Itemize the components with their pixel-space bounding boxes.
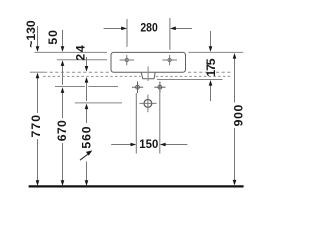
- dim 280: extension line from right faucet hole: [169, 18, 171, 50]
- arrowheads (black): [36, 27, 237, 186]
- arrow 24 up (to dashed line 2): [85, 77, 89, 83]
- svg-text:150: 150: [139, 138, 158, 151]
- dim 670 line: [62, 93, 64, 118]
- svg-text:900: 900: [232, 104, 246, 126]
- dim 150: right arrow line: [165, 144, 188, 146]
- rim extension line right: [189, 51, 244, 53]
- drain centerline: [147, 66, 149, 81]
- dim 280: extension line from left faucet hole: [126, 19, 128, 47]
- arrow 670 down (floor): [61, 180, 65, 186]
- dim 900 line: [234, 59, 236, 103]
- svg-text:560: 560: [80, 126, 94, 148]
- drain-center level extension line: [75, 102, 122, 104]
- trapezoid-bottom extension line right: [157, 79, 223, 81]
- rim extension line left: [35, 51, 108, 53]
- faucet hole cross right: [162, 55, 177, 65]
- svg-text:50: 50: [46, 30, 60, 45]
- svg-text:670: 670: [55, 120, 69, 141]
- arrow 900 down (floor): [233, 180, 237, 186]
- wall dashed line 2: [43, 75, 141, 77]
- arrow 560 diagonal (points NE to drain): [86, 150, 92, 155]
- arrow 150 left (points right): [131, 143, 137, 147]
- dim 280: right arrow: [175, 28, 192, 30]
- arrow 770 down (floor): [36, 180, 40, 186]
- svg-text:24: 24: [74, 45, 88, 61]
- arrow 150 right (points left): [160, 143, 166, 147]
- dim 175 lower pointer: [210, 85, 212, 101]
- arrow 280 left (points right): [121, 27, 127, 31]
- svg-text:~130: ~130: [24, 20, 38, 48]
- faucet hole cross left: [120, 55, 135, 65]
- dim ~130 pointer line: [37, 26, 39, 47]
- dim 175 upper pointer: [210, 31, 212, 47]
- dim 560 upper tail below drain-center line: [86, 109, 88, 124]
- fixing hole right (circle with cross): [154, 82, 165, 94]
- arrow 670 up (to fixing line): [61, 87, 65, 93]
- dim 150: extension lines from fixing holes: [135, 93, 137, 154]
- fixing hole left (circle with cross): [132, 82, 143, 94]
- floor line: [29, 185, 244, 187]
- wall dashed line 1 (basin bottom level): [30, 71, 44, 73]
- dim 50 lower pointer: [62, 66, 64, 85]
- svg-text:280: 280: [140, 22, 158, 35]
- arrow 175 up (to trapezoid bottom line): [209, 80, 213, 86]
- svg-text:770: 770: [29, 115, 43, 138]
- dim 24 upper pointer: [86, 57, 88, 66]
- dim 150: left arrow line: [111, 144, 131, 146]
- dim 280: left arrow: [104, 28, 122, 30]
- arrow ~130 down: [36, 46, 40, 52]
- washbasin body (front view rounded rectangle): [111, 52, 186, 72]
- arrow 50 up (to faucet line): [61, 60, 65, 66]
- dim 24 lower pointer: [86, 83, 88, 101]
- arrow 900 up (to rim): [233, 53, 237, 59]
- arrow 280 right (points left): [170, 27, 176, 31]
- fixing-hole level extension line: [55, 86, 85, 88]
- arrow 24 down (to dashed line 1): [85, 66, 89, 72]
- drain outlet trapezoid under basin: [141, 73, 155, 79]
- arrow 560 down (floor): [85, 180, 89, 186]
- arrow 770 up (to dashed line 1): [36, 73, 40, 79]
- dim 560 lower line: [86, 162, 88, 181]
- svg-text:175: 175: [204, 58, 218, 76]
- arrow 50 down: [61, 46, 65, 52]
- drain pipe circle with cross: [144, 100, 152, 108]
- dim 560 diagonal leader line: [80, 154, 88, 160]
- arrow 175 down (to rim): [209, 46, 213, 52]
- faucet-hole level extension line: [57, 59, 107, 61]
- arrow 560 up (to drain-center line): [85, 104, 89, 110]
- dim 50 pointer line: [62, 30, 64, 47]
- dim 770 line: [37, 78, 39, 113]
